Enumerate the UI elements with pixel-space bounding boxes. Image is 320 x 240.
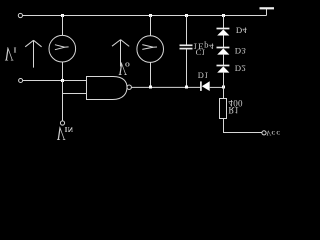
arrow V_O annotation	[112, 40, 129, 67]
node V_IN open terminal	[60, 121, 64, 125]
svg-text:D2: D2	[235, 64, 246, 74]
junction on rail at source V0	[149, 14, 152, 17]
wire D4 to D3	[223, 36, 225, 48]
wire top rail	[23, 15, 267, 17]
svg-text:D1: D1	[198, 70, 209, 79]
wire rail to source circle 1	[62, 16, 64, 36]
gate U3 output bubble	[127, 85, 131, 89]
junction on rail at capacitor	[185, 14, 188, 17]
wire source circle 1 to input node	[62, 62, 64, 81]
svg-text:O: O	[125, 60, 130, 67]
diode D1	[201, 81, 210, 91]
label V_O	[118, 58, 130, 78]
svg-text:D4: D4	[236, 26, 248, 36]
resistor R1 box	[220, 99, 227, 119]
diode D2	[217, 66, 230, 73]
source U2 circle	[137, 36, 164, 63]
svg-text:V: V	[266, 129, 271, 137]
wire rail to diode D4	[223, 16, 225, 29]
junction on rail at diode chain	[222, 14, 225, 17]
diode D4	[217, 29, 230, 36]
junction at D1 / R1 / diode chain node	[222, 86, 225, 89]
node V_IN terminal (lower left)	[19, 79, 23, 83]
wire rail to source circle 2	[150, 16, 152, 36]
svg-text:IN: IN	[65, 125, 74, 133]
label V_CC	[266, 129, 281, 137]
junction at input node	[61, 79, 64, 82]
wire D2 to output node	[223, 73, 225, 88]
svg-text:CC: CC	[272, 129, 282, 135]
svg-text:R1: R1	[228, 105, 239, 115]
wire input to gate top input	[23, 80, 87, 82]
junction output node at source 2	[149, 86, 152, 89]
junction output node at capacitor	[185, 86, 188, 89]
node V_CC terminal	[262, 131, 266, 135]
wire tee to gate bottom input	[63, 93, 87, 95]
label V_I	[4, 43, 16, 65]
svg-text:D3: D3	[235, 46, 247, 56]
svg-text:C1: C1	[196, 48, 206, 57]
wire node to resistor R1	[223, 87, 225, 98]
node input terminal (top left)	[18, 13, 22, 17]
wire R1 to V_CC	[224, 119, 262, 133]
wire D1 to R1 node	[210, 86, 224, 88]
junction on rail at source V1	[61, 14, 64, 17]
arrow V_I annotation	[25, 40, 41, 67]
wire input node down to V_IN terminal	[62, 81, 64, 121]
diode D3	[217, 48, 230, 55]
source U1 arrow glyph	[55, 45, 69, 50]
svg-text:I: I	[14, 46, 17, 54]
wire gate output	[131, 86, 200, 88]
source U1 circle	[49, 35, 76, 62]
svg-text:V: V	[4, 43, 13, 65]
ground	[260, 8, 275, 15]
gate U3 NAND body	[87, 77, 128, 100]
capacitor C1	[180, 45, 193, 48]
wire capacitor to output node	[186, 49, 188, 87]
wire D3 to D2	[223, 55, 225, 66]
source U2 arrow glyph	[142, 45, 157, 50]
label V_IN	[56, 122, 73, 144]
wire rail to capacitor C1	[186, 16, 188, 46]
wire source circle 2 to output node	[150, 62, 152, 87]
